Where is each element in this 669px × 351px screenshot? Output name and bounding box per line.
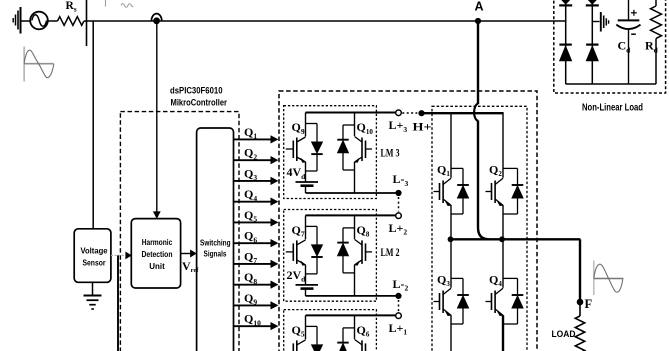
diode (left, 7)	[306, 225, 318, 227]
terminal L+2	[396, 213, 402, 219]
dotted link	[398, 300, 400, 315]
multilevel inverter outer box	[279, 91, 537, 351]
resistor Rd	[655, 0, 657, 6]
transistor 8	[354, 215, 356, 239]
resistor Rs	[58, 17, 84, 26]
node F	[577, 299, 584, 306]
svg-text:Sensor: Sensor	[83, 259, 107, 268]
svg-text:Detection: Detection	[142, 250, 173, 259]
gray tick (cut label)	[105, 0, 107, 7]
diode D4 (bottom leg2)	[586, 43, 598, 45]
diode (right, 10)	[343, 124, 355, 126]
mid rail (output)	[449, 238, 580, 240]
diode (left, 9)	[306, 123, 318, 125]
module box LM 1	[284, 310, 377, 351]
module LM3 top rail	[306, 112, 396, 114]
dsPIC30F6010 MikroController box	[120, 112, 239, 351]
voltage sensor	[74, 229, 111, 282]
diode (left, 5)	[306, 325, 318, 327]
diode (right, 6)	[343, 327, 355, 329]
ground (source side)	[20, 7, 22, 34]
gate signal line Q1	[234, 138, 272, 140]
svg-text:LOAD: LOAD	[552, 329, 576, 339]
gray dotted link VS to HDU	[111, 254, 126, 256]
wire emitter Q3	[450, 315, 452, 351]
load resistor	[579, 305, 581, 316]
node H+	[418, 110, 424, 116]
rectifier leg 2	[591, 0, 593, 84]
transistor 9	[305, 113, 307, 137]
terminal L-2	[395, 293, 401, 299]
junction	[499, 236, 505, 242]
gray squiggle (cut label)	[121, 4, 133, 8]
svg-text:Non-Linear Load: Non-Linear Load	[582, 103, 643, 114]
svg-text:Voltage: Voltage	[81, 247, 108, 256]
diode D3 (top leg2)	[587, 0, 598, 4]
gate signal line Q3	[234, 180, 272, 182]
diode (Q1)	[451, 167, 463, 169]
wire emitter Q4	[502, 315, 504, 351]
svg-text:Signals: Signals	[204, 250, 227, 259]
AC source Vs	[30, 12, 48, 30]
wire main AC line	[84, 20, 566, 22]
svg-text:F: F	[585, 297, 593, 311]
module box LM 2	[284, 210, 377, 302]
gray sine icon (output waveform)	[593, 261, 595, 296]
svg-text:dsPIC30F6010: dsPIC30F6010	[170, 86, 223, 96]
wire emitter 9 down	[305, 162, 307, 182]
gate signal line Q10	[234, 325, 272, 327]
wire emitter Q2	[502, 205, 504, 239]
diode (Q2)	[503, 167, 518, 169]
svg-text:H+: H+	[413, 120, 432, 134]
wire emitter Q1	[450, 205, 452, 239]
dotted link	[398, 197, 400, 212]
diode (Q3)	[451, 277, 463, 279]
gate signal line Q2	[234, 159, 272, 161]
battery 4Vd	[296, 181, 319, 183]
gate signal line Q9	[234, 304, 272, 306]
gate signal line Q7	[234, 263, 272, 265]
transistor 5	[305, 315, 307, 339]
transistor 7	[305, 215, 307, 239]
diode D1 (top leg1)	[560, 0, 571, 4]
wire emitter 10 down	[354, 162, 356, 193]
wire	[21, 20, 31, 22]
svg-text:Unit: Unit	[149, 262, 165, 271]
terminal L+1	[396, 313, 402, 319]
svg-text:Switching: Switching	[200, 239, 231, 248]
wire emitter 7 down	[305, 265, 307, 285]
wire from A down to inverter	[477, 21, 479, 104]
arrow into HDU	[126, 252, 132, 259]
transistor Q4	[502, 239, 504, 287]
capacitor Cd	[628, 0, 630, 19]
transistor Q3	[450, 239, 452, 287]
wire to voltage sensor	[92, 21, 94, 229]
wire	[48, 20, 58, 22]
ground (rectifier)	[592, 21, 599, 23]
svg-text:A: A	[475, 0, 484, 14]
module LM2 bottom rail	[306, 295, 399, 297]
gate signal line Q5	[234, 221, 272, 223]
diode D2 (bottom leg1)	[559, 43, 571, 45]
svg-text:LM 3: LM 3	[381, 148, 400, 160]
module box LM 3	[284, 106, 377, 199]
battery 2Vd	[296, 284, 319, 286]
switching signals block	[197, 128, 234, 351]
dotted link L+3 to H+	[402, 112, 417, 114]
node on wire (to harmonic detection)	[151, 14, 161, 21]
wire down to HDU	[156, 21, 158, 213]
bottom rail of rectifier	[566, 83, 656, 85]
junction	[448, 236, 454, 242]
diode (right, 8)	[343, 227, 355, 229]
module LM3 bottom rail	[306, 192, 399, 194]
stub vertical near resistor	[86, 0, 88, 46]
transistor Q2	[502, 113, 504, 178]
svg-text:Harmonic: Harmonic	[142, 238, 173, 247]
H-bridge box	[432, 106, 527, 351]
gate signal line Q8	[234, 284, 272, 286]
transistor Q1	[450, 113, 452, 178]
module LM2 top rail	[306, 214, 396, 216]
diode (Q4)	[503, 277, 518, 279]
arrow HDU to switching block	[181, 253, 191, 255]
gate signal line Q6	[234, 242, 272, 244]
transistor 10	[354, 113, 356, 137]
wire emitter 8 down	[354, 265, 356, 296]
transistor 6	[354, 315, 356, 339]
gray sine icon (source waveform)	[23, 47, 25, 82]
terminal L-3	[395, 190, 401, 196]
harmonic detection unit	[131, 219, 180, 288]
terminal L+3	[396, 110, 402, 116]
svg-text:LM 2: LM 2	[381, 247, 400, 259]
wire down from VS output	[117, 255, 119, 351]
gate signal line Q4	[234, 201, 272, 203]
wire to F	[579, 239, 581, 302]
svg-text:MikroController: MikroController	[171, 98, 228, 108]
non-linear load box	[554, 0, 666, 93]
rectifier leg 1	[565, 0, 567, 84]
module LM1 top rail	[306, 314, 396, 316]
H+ rail	[422, 112, 504, 114]
ground (voltage sensor)	[92, 282, 94, 295]
